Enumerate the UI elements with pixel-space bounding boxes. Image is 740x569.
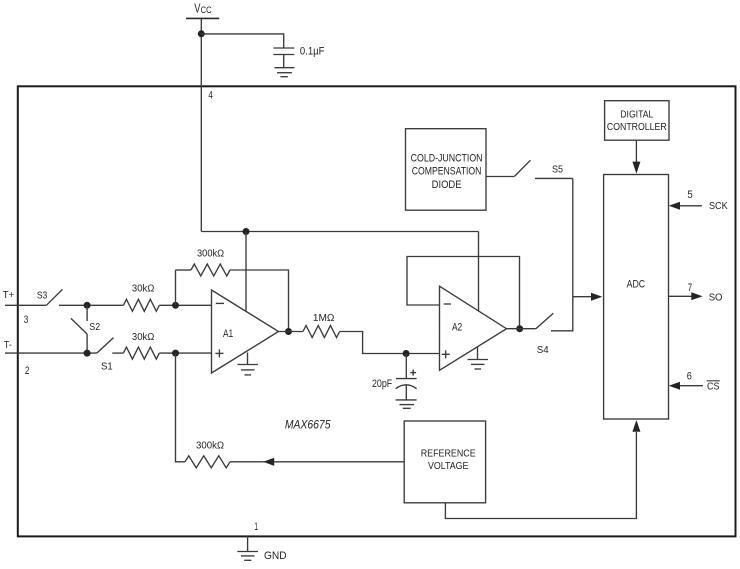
wire S4 to ADC bus riser [551,178,573,330]
pin 3 label [24,314,29,326]
300k value label (feedback) [197,248,224,260]
node A1 supply tap [243,228,250,235]
svg-text:DIODE: DIODE [432,179,462,191]
svg-text:A2: A2 [452,322,462,334]
switch S5 [514,160,530,176]
pin 6 label [687,371,692,383]
switch S2 [71,305,87,353]
svg-text:GND: GND [264,550,287,562]
wire R 1M to A2 non-inverting input [340,332,440,354]
node A1 inverting input [172,302,179,309]
ground (GND pin) [237,552,258,561]
wire pin 1 to ground [247,536,249,551]
svg-text:SO: SO [709,292,723,303]
svg-text:3: 3 [24,314,29,326]
T+ input label [3,290,14,301]
wire feedback to A1 output [230,270,289,332]
svg-text:REFERENCE: REFERENCE [421,448,476,459]
capacitor C2 20pF polarized [396,370,417,400]
svg-text:DIGITAL: DIGITAL [620,109,653,120]
svg-text:VOLTAGE: VOLTAGE [428,461,469,472]
SCK label [709,201,728,212]
CS label (with overbar) [707,381,720,393]
wire A1 feedback riser [175,270,177,305]
svg-text:MAX6675: MAX6675 [285,418,331,432]
pin 1 label [254,521,258,533]
ground (A1) [238,353,259,375]
wire bus to ADC input arrow [573,293,603,301]
capacitor C1 0.1uF [273,48,294,68]
wire supply drop to A2 [478,232,480,311]
resistor R 300k (A1 feedback) [191,264,230,276]
S5 label [552,165,563,176]
resistor R 1M [303,326,340,338]
svg-text:CC: CC [201,5,213,15]
C2 value label 20pF [372,378,393,390]
svg-text:5: 5 [687,189,692,201]
svg-text:300kΩ: 300kΩ [197,248,224,260]
300k value label (reference path) [196,440,224,452]
wire T+ lead [5,304,46,306]
A1 label [223,328,233,340]
wire reference voltage to R 300k with arrow [230,458,404,466]
svg-text:S5: S5 [552,165,563,176]
wire reference voltage to ADC with arrow [445,420,640,519]
wire supply drop to A1 [245,232,247,312]
wire VCC rail down through pin 4 [200,18,202,231]
SCK input wire with arrow [669,202,702,210]
svg-text:2: 2 [25,365,30,377]
GND label [264,550,287,562]
pin 7 label [688,282,692,294]
svg-text:ADC: ADC [627,279,646,291]
SO output wire with arrow [669,292,703,300]
svg-text:1: 1 [254,521,258,533]
MAX6675 part label [285,418,331,432]
wire S3 to T+ node [59,304,124,306]
svg-text:6: 6 [687,371,692,383]
svg-text:S4: S4 [537,345,549,356]
T- input label [4,340,12,351]
node A1 non-inverting input [172,350,179,357]
30k value label (top) [132,283,155,295]
C1 value label 0.1µF [300,46,325,58]
30k value label (bottom) [132,331,155,343]
node T+ / S2 top [84,302,91,309]
svg-text:S1: S1 [101,361,113,372]
node VCC/C1 junction [198,30,205,37]
node T- / S2 bottom [84,350,91,357]
wire feedback to R 300k [176,269,192,271]
wire S1 to R 30k [112,352,123,354]
VCC supply symbol [186,1,219,19]
svg-text:COMPENSATION: COMPENSATION [412,165,482,177]
reference voltage block [404,421,485,503]
ground (C2) [396,400,417,408]
svg-text:300kΩ: 300kΩ [196,440,224,452]
svg-text:A1: A1 [223,328,233,340]
resistor R 30k (T- path) [123,347,159,359]
svg-text:CS: CS [707,381,720,392]
wire A2 inverting input feedback loop [407,257,520,329]
pin 5 label [687,189,692,201]
A2 label [452,322,462,334]
svg-text:20pF: 20pF [372,378,393,390]
pin 2 label [25,365,30,377]
SO label [709,292,723,303]
wire A1 output to R 1M [279,331,304,333]
cold-junction compensation diode box [406,129,487,211]
wire node to C2 [405,354,407,379]
MAX6675 package outline [18,86,736,536]
svg-text:4: 4 [208,90,212,102]
1M value label [313,312,335,324]
wire A2 apex to output node [507,328,536,330]
op-amp A1 [212,290,279,373]
ADC block [604,175,669,420]
svg-text:S3: S3 [37,290,48,301]
top VCC rail wire to op-amp supplies [201,231,478,233]
node A2 non-inverting input / C2 [403,350,410,357]
node A2 output [516,325,523,332]
svg-text:SCK: SCK [709,201,728,212]
pin 4 label [208,90,212,102]
ground (A2) [468,347,489,370]
wire R to A1 inverting input [159,304,211,306]
svg-text:S2: S2 [89,322,100,333]
switch S3 [46,289,62,305]
S3 label [37,290,48,301]
svg-text:T+: T+ [3,290,14,301]
wire R to A1 non-inverting input [159,352,211,354]
svg-text:T-: T- [4,340,12,351]
wire T- lead [5,352,97,354]
wire VCC junction to C1 [201,34,283,48]
svg-text:30kΩ: 30kΩ [132,283,155,295]
digital controller block [605,101,669,141]
switch S4 [536,313,554,329]
wire controller to ADC with arrow [632,140,640,174]
resistor R 300k (reference path) [185,456,230,468]
CS input wire with arrow [669,382,703,390]
svg-text:CONTROLLER: CONTROLLER [607,122,667,133]
switch S1 [97,338,114,354]
resistor R 30k (T+ path) [123,299,159,311]
svg-text:COLD-JUNCTION: COLD-JUNCTION [411,152,483,164]
svg-text:1MΩ: 1MΩ [313,312,335,324]
wire A1 non-inverting node down to R 300k [176,353,186,462]
S4 label [537,345,549,356]
wire diode box to S5 [486,176,514,178]
ground (C1) [275,68,295,77]
S1 label [101,361,113,372]
S2 label [89,322,100,333]
svg-text:30kΩ: 30kΩ [132,331,155,343]
svg-text:0.1µF: 0.1µF [300,46,325,58]
op-amp A2 [440,286,507,370]
wire S5 to ADC bus riser [535,177,573,179]
node A1 output [285,328,292,335]
